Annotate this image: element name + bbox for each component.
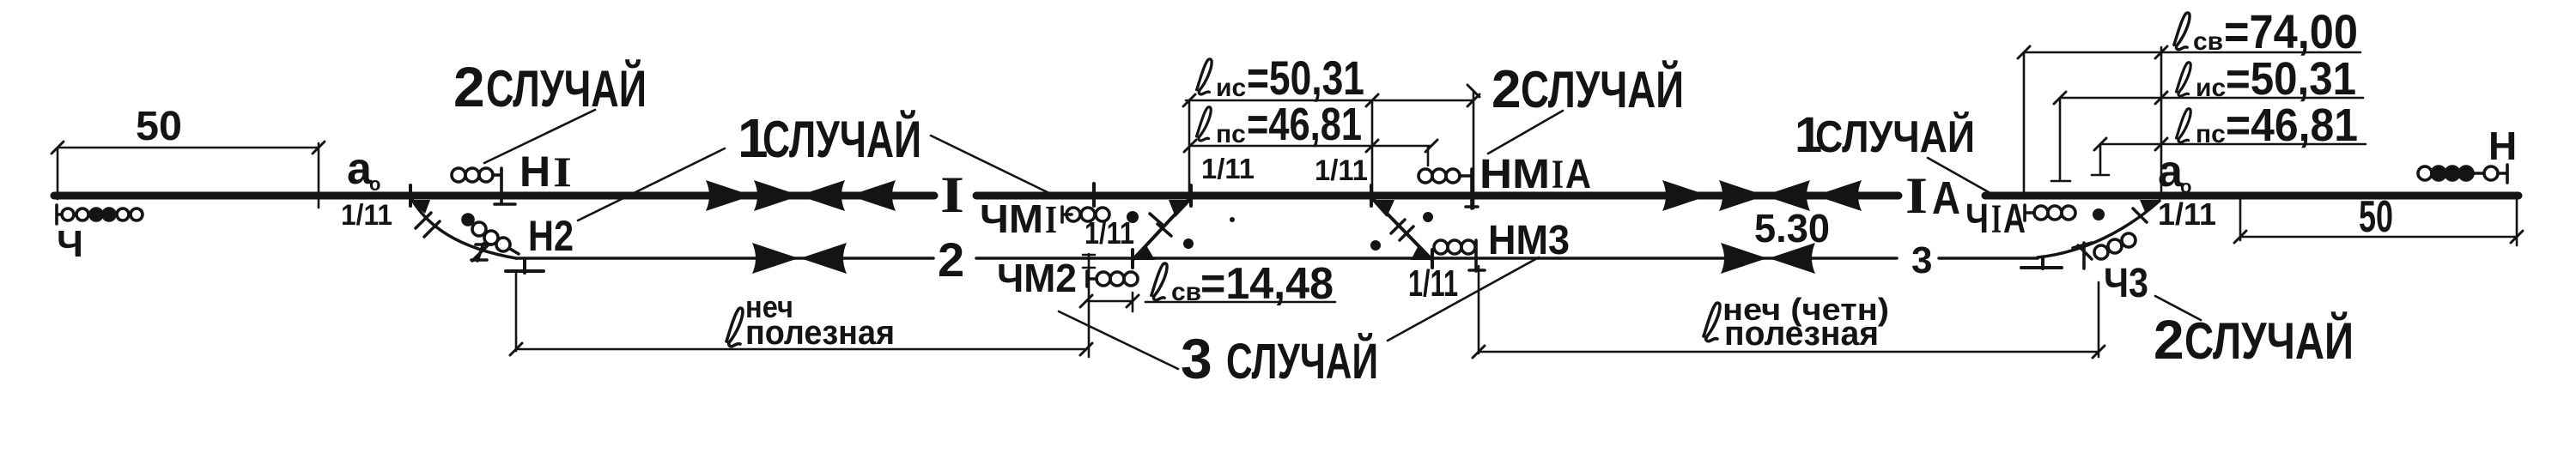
dimension lps mid: line bbox=[1190, 146, 1431, 166]
svg-text:ис: ис bbox=[1216, 74, 1246, 102]
svg-text:=14,48: =14,48 bbox=[1200, 259, 1334, 309]
dimension ticks mid bbox=[1183, 85, 1479, 152]
svg-text:50: 50 bbox=[136, 104, 182, 149]
useful length dimension left: line bbox=[516, 254, 1095, 357]
svg-text:=74,00: =74,00 bbox=[2224, 4, 2358, 58]
label lps=46,81 middle bbox=[1197, 107, 1212, 141]
svg-text:I: I bbox=[940, 166, 964, 223]
insulating joint slashes on left turnout curve bbox=[416, 213, 440, 237]
leader 1 СЛУЧАЙ to Н2 bbox=[578, 148, 725, 220]
svg-text:I: I bbox=[1905, 167, 1928, 224]
svg-text:ЧМ2: ЧМ2 bbox=[997, 256, 1077, 300]
svg-text:НМ: НМ bbox=[1479, 152, 1550, 197]
label lsv=74,00 right bbox=[2174, 13, 2190, 50]
signal ЧМI symbol bbox=[1062, 207, 1072, 222]
signal НМ3 symbol bbox=[1434, 240, 1448, 254]
signal Н far right bbox=[2418, 166, 2432, 180]
signal ЧIА symbol bbox=[2025, 205, 2034, 220]
svg-text:ЧМ: ЧМ bbox=[980, 196, 1043, 241]
label lps=46,81 right bbox=[2177, 109, 2191, 142]
switch point tick left turnout bbox=[409, 185, 412, 206]
dimension lis right: line bbox=[2051, 98, 2363, 181]
leader 3 СЛУЧАЙ to НМ3 bbox=[1388, 257, 1539, 341]
insulating joint slash near right turnout point bbox=[2133, 208, 2147, 222]
svg-text:I: I bbox=[553, 148, 572, 196]
turnout wedge right bbox=[2140, 200, 2160, 214]
leader 1 СЛУЧАЙ to ЧМI bbox=[931, 136, 1056, 196]
signal Ч3 symbol on curve bbox=[2073, 243, 2092, 269]
svg-text:Н: Н bbox=[2488, 124, 2517, 168]
svg-text:=46,81: =46,81 bbox=[1247, 99, 1362, 150]
track I main line right segment bbox=[1985, 192, 2518, 200]
track 3 line right segment bbox=[1939, 257, 2038, 260]
crossover left diagonal bbox=[1133, 197, 1191, 260]
svg-text:А: А bbox=[1565, 152, 1591, 197]
label useful length left bbox=[726, 308, 743, 347]
useful length dimension right: line bbox=[1479, 266, 2099, 357]
dimension lps right: line bbox=[2092, 144, 2366, 175]
svg-text:1/11: 1/11 bbox=[2158, 196, 2216, 232]
svg-text:А: А bbox=[1932, 172, 1960, 224]
traffic arrows track I left group bbox=[706, 180, 752, 211]
svg-text:2: 2 bbox=[938, 232, 964, 287]
insulating joint slashes on right crossover diagonal bbox=[1391, 220, 1413, 240]
svg-text:o: o bbox=[369, 173, 380, 195]
dimension ticks right bbox=[2018, 46, 2167, 150]
dimension lis mid: line bbox=[1186, 91, 1473, 208]
underline of lsv=14,48 bbox=[1145, 301, 1335, 304]
crossover right diagonal bbox=[1371, 197, 1432, 260]
svg-text:o: o bbox=[2180, 176, 2191, 197]
svg-text:=50,31: =50,31 bbox=[1247, 51, 1364, 105]
leader 2 СЛУЧАЙ top-left bbox=[484, 110, 595, 163]
crossover left top wedge bbox=[1169, 200, 1192, 217]
svg-text:полезная: полезная bbox=[745, 314, 895, 352]
track 2/3 line middle segment bbox=[976, 257, 1897, 260]
label useful length right bbox=[1704, 303, 1720, 341]
traffic arrows track 2 bbox=[752, 243, 799, 274]
svg-text:Н2: Н2 bbox=[528, 212, 574, 260]
insulated joint T at track2 start bbox=[506, 259, 544, 273]
crossover left bottom wedge bbox=[1133, 245, 1155, 260]
svg-text:1/11: 1/11 bbox=[1084, 215, 1134, 251]
crossover right top wedge bbox=[1371, 200, 1394, 217]
leader 1 СЛУЧАЙ right to track IA bbox=[1928, 158, 1989, 192]
svg-text:СЛУЧАЙ: СЛУЧАЙ bbox=[762, 111, 921, 168]
svg-text:3: 3 bbox=[1911, 239, 1932, 281]
svg-text:св: св bbox=[1171, 278, 1201, 306]
leader 3 СЛУЧАЙ to ЧМ2 bbox=[1059, 311, 1178, 369]
svg-text:Ч: Ч bbox=[1965, 196, 1989, 242]
svg-text:3: 3 bbox=[1181, 327, 1212, 390]
dimension 50 right bbox=[2240, 199, 2517, 245]
turnout curve left (switch 1/11 to track 2) bbox=[412, 200, 516, 258]
insulating joint slash near track2 start bbox=[472, 245, 488, 261]
svg-text:пс: пс bbox=[1216, 120, 1246, 148]
svg-text:Ч3: Ч3 bbox=[2104, 261, 2148, 306]
svg-text:2: 2 bbox=[2154, 309, 2184, 371]
crossover left bottom joint tick bbox=[1131, 250, 1134, 268]
crossover right bottom wedge bbox=[1411, 245, 1432, 260]
svg-text:1/11: 1/11 bbox=[341, 199, 392, 232]
svg-text:=50,31: =50,31 bbox=[2226, 53, 2356, 105]
svg-text:I: I bbox=[1045, 197, 1057, 241]
insulated joint tick on main line near ЧМI bbox=[1092, 184, 1096, 206]
svg-text:пс: пс bbox=[2196, 120, 2226, 148]
track 2 line left segment bbox=[516, 257, 933, 260]
svg-text:5.30: 5.30 bbox=[1754, 206, 1830, 251]
traffic arrows track 3 bbox=[1721, 243, 1767, 274]
svg-text:Н: Н bbox=[519, 148, 550, 196]
svg-text:полезная: полезная bbox=[1724, 315, 1879, 353]
label lis=50,31 middle bbox=[1197, 59, 1212, 94]
label lis=50,31 right bbox=[2177, 63, 2191, 96]
signal НМIА symbol bbox=[1419, 169, 1432, 183]
small dimension under ЧМ2 bbox=[1089, 293, 1133, 311]
crossover right top joint tick bbox=[1370, 185, 1373, 206]
dimension vertical at right turnout point bbox=[2160, 47, 2163, 193]
crossover left top joint tick bbox=[1189, 185, 1193, 206]
signal НI symbol bbox=[452, 168, 465, 182]
svg-text:1/11: 1/11 bbox=[1315, 154, 1368, 187]
signal Н2 symbol on curve bbox=[463, 214, 473, 225]
track I main line middle segment bbox=[976, 192, 1899, 200]
dot left of right crossover bbox=[1370, 240, 1381, 251]
dimension lsv right: line bbox=[2024, 52, 2360, 194]
svg-text:1/11: 1/11 bbox=[1201, 153, 1255, 184]
svg-text:СЛУЧАЙ: СЛУЧАЙ bbox=[486, 60, 647, 118]
svg-text:=46,81: =46,81 bbox=[2226, 100, 2358, 151]
traffic arrows track I right group bbox=[1662, 180, 1709, 211]
insulating joint slashes on left crossover diagonal bbox=[1150, 214, 1171, 236]
svg-text:1/11: 1/11 bbox=[1408, 263, 1458, 305]
svg-text:ис: ис bbox=[2196, 74, 2226, 102]
signal ЧМ2 symbol bbox=[1087, 271, 1097, 287]
svg-text:СЛУЧАЙ: СЛУЧАЙ bbox=[2184, 312, 2354, 370]
turnout wedge left bbox=[410, 200, 430, 214]
svg-text:НМ3: НМ3 bbox=[1488, 218, 1570, 263]
svg-text:А: А bbox=[2003, 196, 2026, 242]
svg-text:2: 2 bbox=[1492, 60, 1521, 119]
leader 2 СЛУЧАЙ middle bbox=[1488, 111, 1563, 154]
svg-text:Ч: Ч bbox=[57, 223, 83, 265]
svg-text:св: св bbox=[2193, 27, 2223, 56]
dot below left crossover bbox=[1183, 239, 1194, 249]
signal base dot near ЧМI bbox=[1127, 211, 1139, 223]
track I main line left segment bbox=[54, 192, 934, 200]
dimension 50 left: extension lines and dim line bbox=[58, 143, 319, 208]
svg-text:СЛУЧАЙ: СЛУЧАЙ bbox=[1226, 334, 1378, 389]
svg-text:I: I bbox=[1552, 152, 1564, 197]
dot near НМIА mast bbox=[1423, 212, 1433, 222]
leader 2 СЛУЧАЙ bottom-right bbox=[2155, 296, 2201, 320]
turnout curve right (switch 1/11 to track 3) bbox=[2038, 201, 2160, 257]
crossover right bottom joint tick bbox=[1431, 250, 1434, 268]
signal Ч far left bbox=[57, 205, 62, 224]
svg-text:I: I bbox=[1991, 196, 2002, 242]
insulated joint T at track3 end bbox=[2021, 258, 2062, 269]
insulating joint slashes on right turnout curve bbox=[2078, 245, 2092, 259]
svg-text:50: 50 bbox=[2359, 192, 2393, 242]
dot near ЧIА bbox=[2093, 208, 2105, 220]
svg-text:2: 2 bbox=[453, 55, 485, 118]
tiny dot mid bbox=[1230, 217, 1235, 222]
label lsv=14,48 bbox=[1151, 263, 1167, 300]
svg-text:СЛУЧАЙ: СЛУЧАЙ bbox=[1815, 112, 1975, 162]
svg-text:СЛУЧАЙ: СЛУЧАЙ bbox=[1521, 61, 1684, 118]
